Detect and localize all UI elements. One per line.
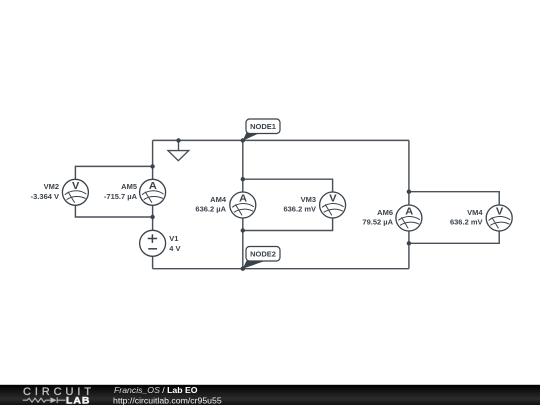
label AM5 value xyxy=(104,182,138,201)
svg-text:-3.364 V: -3.364 V xyxy=(31,192,59,201)
svg-text:V1: V1 xyxy=(169,234,178,243)
ammeter AM5 xyxy=(140,179,166,205)
wire AM6 bottom to bottom rail xyxy=(408,231,410,269)
logo resistor and diode xyxy=(23,397,66,403)
wire VM2 bottom branch xyxy=(75,205,152,217)
wire VM3 top branch xyxy=(243,179,333,192)
wire left branch vertical from top rail to AM5 xyxy=(152,140,154,179)
label AM4 value xyxy=(195,195,226,214)
node NODE1 flag xyxy=(243,119,280,141)
svg-text:Francis_OS / Lab EO: Francis_OS / Lab EO xyxy=(114,385,198,395)
svg-text:VM3: VM3 xyxy=(301,195,316,204)
label AM6 value xyxy=(362,208,393,227)
junction dot at ground tap xyxy=(176,138,180,142)
svg-text:VM2: VM2 xyxy=(44,182,59,191)
svg-text:636.2 mV: 636.2 mV xyxy=(450,218,483,227)
svg-text:79.52 µA: 79.52 µA xyxy=(362,218,393,227)
svg-text:LAB: LAB xyxy=(66,396,90,405)
svg-text:-715.7 µA: -715.7 µA xyxy=(104,192,138,201)
svg-text:A: A xyxy=(239,193,247,204)
junction dot VM4 bottom branch xyxy=(407,241,411,245)
svg-text:AM6: AM6 xyxy=(377,208,393,217)
wire AM5 to V1 xyxy=(152,205,154,230)
ground xyxy=(168,140,189,160)
wire middle branch NODE1 to AM4 xyxy=(242,140,244,192)
wire V1 bottom to bottom rail xyxy=(152,256,154,268)
junction dot VM3 bottom branch xyxy=(241,228,245,232)
junction dot at NODE2 xyxy=(241,267,245,271)
svg-text:A: A xyxy=(405,206,413,217)
svg-text:V: V xyxy=(329,193,336,204)
wire AM4 bottom to NODE2 xyxy=(242,218,244,269)
svg-text:4 V: 4 V xyxy=(169,244,180,253)
node NODE2 flag xyxy=(243,247,280,269)
voltmeter VM4 xyxy=(486,205,512,231)
label V1 value xyxy=(169,234,180,253)
svg-text:AM4: AM4 xyxy=(210,195,227,204)
junction dot VM3 top branch xyxy=(241,177,245,181)
wire right branch top rail to AM6 xyxy=(408,140,410,205)
label VM3 value xyxy=(283,195,316,214)
wire VM3 bottom branch xyxy=(243,218,333,231)
svg-text:V: V xyxy=(496,206,503,217)
wire top rail NODE1 net xyxy=(153,139,409,141)
svg-text:A: A xyxy=(149,180,157,191)
svg-text:AM5: AM5 xyxy=(121,182,137,191)
junction dot at NODE1 xyxy=(241,138,245,142)
label VM2 value xyxy=(31,182,59,201)
ammeter AM4 xyxy=(230,192,256,218)
svg-text:NODE1: NODE1 xyxy=(250,122,276,131)
voltmeter VM3 xyxy=(320,192,346,218)
wire bottom rail NODE2 net xyxy=(153,268,409,270)
svg-text:636.2 µA: 636.2 µA xyxy=(195,205,226,214)
junction dot VM4 top branch xyxy=(407,190,411,194)
junction dot VM2 top branch xyxy=(150,164,154,168)
voltage source V1 xyxy=(140,230,166,256)
svg-text:http://circuitlab.com/cr95u55: http://circuitlab.com/cr95u55 xyxy=(113,396,222,405)
junction dot VM2 bottom branch xyxy=(150,215,154,219)
svg-text:V: V xyxy=(72,180,79,191)
wire VM4 bottom branch xyxy=(409,231,499,243)
wire VM4 top branch xyxy=(409,192,499,205)
wire VM2 top branch xyxy=(75,166,152,179)
voltmeter VM2 xyxy=(62,179,88,205)
label VM4 value xyxy=(450,208,483,227)
svg-text:636.2 mV: 636.2 mV xyxy=(283,205,316,214)
ammeter AM6 xyxy=(396,205,422,231)
svg-text:NODE2: NODE2 xyxy=(250,250,276,259)
svg-text:VM4: VM4 xyxy=(467,208,483,217)
